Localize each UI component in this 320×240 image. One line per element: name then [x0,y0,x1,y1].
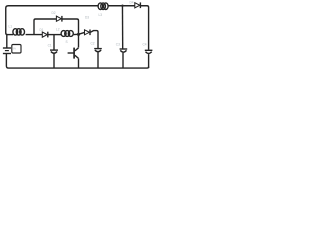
svg-text:Vi: Vi [13,46,16,50]
svg-text:D3: D3 [85,16,89,20]
svg-text:L2: L2 [56,28,60,32]
svg-text:L1: L1 [9,25,13,29]
wire bottom rail [6,54,148,68]
diode D3 [85,30,91,36]
svg-text:D1: D1 [40,28,44,32]
battery source (left) leads [6,33,8,35]
wire top branch to diode D2 [36,18,57,20]
wire top-right corner down to output cap [141,6,149,50]
wire D1 to L2 [48,34,61,36]
inductor L1 (input) [13,29,25,35]
battery plates [3,47,11,49]
svg-text:C3: C3 [116,43,120,47]
wire node B to diode D3 [79,32,85,34]
inductor L2 (bottom branch) [61,31,73,37]
transistor S1 [68,48,79,69]
capacitor C1 lead down from branch [53,35,55,50]
inductor L3 (top rail) [98,3,108,10]
diode D4 (top right) [135,2,141,8]
capacitor C4 (output) [145,50,153,68]
svg-text:S: S [66,40,68,44]
source label box [12,45,21,54]
svg-text:D4: D4 [130,1,134,5]
capacitor C2 [94,49,102,69]
wire top rail from L3 to diode D4 [108,5,134,7]
svg-text:L3: L3 [99,13,103,17]
wire top branch to right connector down [62,19,78,34]
wire top rail left segment with rounded top-left corner [6,6,99,33]
svg-text:C4: C4 [143,43,147,47]
svg-text:D2: D2 [52,11,56,15]
wire L2 to node B [74,33,79,35]
node B junction dot [77,33,80,36]
wire from L1 to node A [26,34,43,36]
diode D1 (bottom branch) [42,32,48,38]
wire from top rail down to C3 [121,6,123,49]
capacitor C3 [120,49,128,68]
junction dot top rail at x=122.5 [121,5,123,7]
switch S1 lead from node B down [78,34,80,47]
svg-text:C1: C1 [48,44,52,48]
diode D2 (top branch) [56,16,62,22]
wire input to L1 [7,34,13,36]
wire D3 to corner down at x=98 [90,31,98,48]
wire left connector up to top branch [34,19,36,35]
capacitor C1 [50,50,58,68]
svg-text:C2: C2 [91,42,95,46]
